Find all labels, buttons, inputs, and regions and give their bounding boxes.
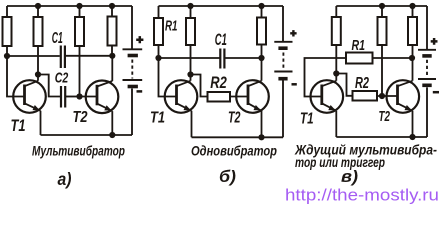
node dot T1a collector: [35, 71, 41, 77]
svg-text:R1: R1: [165, 19, 178, 35]
resistor R1c horizontal: [346, 53, 373, 64]
wire T1b base feed: [159, 58, 177, 97]
resistor R2a (T1 collector): [34, 17, 43, 46]
resistor Rc-right (T2 collector): [408, 17, 417, 45]
wire R2a top lead: [37, 6, 39, 17]
wire top rail b: [159, 5, 284, 7]
node dot T2b emitter/rail: [258, 134, 264, 140]
wire R2vert-b bottom lead crossing C1 line: [190, 45, 192, 75]
battery GB-a plus sign: [136, 36, 143, 43]
node dot rail R3b: [258, 3, 264, 9]
node dot rail R2a: [35, 3, 41, 9]
resistor Rc-mid (T2 base): [378, 17, 387, 45]
svg-text:T1: T1: [300, 111, 314, 128]
battery GB-b plates: [274, 41, 292, 43]
capacitor C1 plates: [60, 46, 62, 69]
resistor R4a (T2 collector): [108, 17, 117, 46]
node dot R1b/C1b: [155, 55, 161, 61]
wire T2a base feed: [80, 96, 98, 98]
transistor T2c: [387, 58, 420, 137]
wire R2b right lead to T2b base: [230, 96, 248, 98]
node dot T1c collector: [333, 70, 339, 76]
wire Rc-right bottom lead: [412, 45, 414, 58]
wire C1b left lead: [159, 57, 221, 59]
resistor R1b: [154, 18, 163, 45]
wire Rc-mid top lead: [381, 6, 383, 17]
svg-text:T2: T2: [228, 110, 241, 127]
svg-text:а): а): [58, 169, 72, 189]
svg-text:C1: C1: [52, 30, 63, 47]
node dot rail R2vert-b: [187, 3, 193, 9]
transistor T1c: [311, 74, 344, 138]
wire Rc-mid bottom lead crossing R1c line: [381, 45, 383, 96]
wire C1b right lead: [224, 57, 261, 59]
wire R2vert-b top lead: [190, 6, 192, 18]
wire C1a left lead: [7, 55, 60, 57]
wire R1b bottom lead: [158, 45, 160, 58]
svg-text:в): в): [341, 167, 358, 186]
wire T1a base feed: [7, 56, 24, 97]
wire R2a bottom lead: [37, 46, 39, 75]
svg-text:Мультивибратор: Мультивибратор: [32, 142, 125, 158]
battery GB-c top lead: [426, 6, 428, 50]
node dot C1b/R3b: [258, 55, 264, 61]
wire R2c right lead to T2c base: [377, 95, 398, 97]
svg-text:C1: C1: [215, 31, 227, 49]
wire R4a top lead: [111, 6, 113, 17]
wire C2a left jog: [38, 75, 60, 97]
node dot rail Rc-mid: [379, 3, 385, 9]
wire R1a bottom lead: [6, 46, 8, 56]
svg-text:T1: T1: [11, 117, 26, 135]
transistor T1b: [165, 75, 198, 138]
resistor Rc-left (T1 collector): [332, 17, 341, 45]
battery GB-b top lead: [282, 6, 284, 42]
svg-text:T2: T2: [379, 108, 391, 125]
svg-text:R2: R2: [210, 73, 227, 92]
transistor T1a: [13, 75, 46, 136]
wire C1a right lead: [65, 55, 112, 57]
wire R1c left feed to T1c base: [305, 58, 347, 97]
battery GB-c plus sign: [431, 38, 438, 45]
battery GB-a top lead: [131, 6, 133, 49]
node dot T2c base: [379, 93, 385, 99]
resistor R2c horizontal: [353, 91, 378, 101]
resistor R2b horizontal: [208, 92, 231, 102]
capacitor C2 plates: [60, 86, 62, 108]
node dot rail Rc-right: [409, 3, 415, 9]
battery GB-b minus sign: [292, 83, 297, 86]
node dot T2c emitter/rail: [409, 134, 415, 140]
resistor R3a (T2 base): [75, 17, 84, 46]
node dot C1a/R4a/T2a collector: [109, 53, 115, 59]
wire R3b bottom lead: [261, 45, 263, 59]
node dot T1b collector: [187, 71, 193, 77]
node dot R1c/T2c collector: [409, 55, 415, 61]
wire R4a bottom lead: [111, 46, 113, 56]
wire R3a bottom lead: [79, 46, 81, 97]
wire R1c right lead: [373, 57, 413, 59]
svg-text:R2: R2: [355, 75, 369, 92]
wire R1b top lead: [158, 6, 160, 18]
wire R3a top lead: [79, 6, 81, 17]
svg-text:T1: T1: [150, 110, 165, 127]
svg-text:C2: C2: [55, 69, 69, 86]
wire top rail c: [336, 5, 427, 7]
transistor T2a: [86, 56, 119, 135]
wire R3c-left top lead: [335, 6, 337, 17]
svg-text:http://the-mostly.ru: http://the-mostly.ru: [285, 186, 439, 205]
battery GB-a minus sign: [137, 90, 143, 93]
svg-text:T2: T2: [73, 109, 88, 126]
battery GB-c plates: [418, 49, 436, 51]
battery GB-c bottom lead: [426, 87, 428, 137]
svg-text:Одновибратор: Одновибратор: [191, 142, 277, 158]
capacitor C1b plates: [219, 49, 221, 69]
wire left drop to R1a: [6, 6, 8, 17]
battery GB-a plates: [123, 48, 143, 50]
node dot R1a/C1 junction: [4, 53, 10, 59]
battery GB-b bottom lead: [282, 81, 284, 138]
node dot T2a emitter/rail: [109, 132, 115, 138]
wire R3b top lead: [261, 6, 263, 18]
resistor R1a (T1 base): [3, 17, 12, 46]
transistor T2b: [236, 58, 269, 137]
wire jog T1b collector to R2b: [191, 75, 208, 97]
resistor R2vert-b (T1 collector): [186, 18, 195, 45]
node dot rail R3a: [76, 3, 82, 9]
node dot rail R4a: [109, 3, 115, 9]
wire bottom rail c: [336, 136, 427, 138]
wire Rc-left bottom lead: [335, 45, 337, 74]
wire Rc-right top lead: [412, 6, 414, 17]
battery GB-b plus sign: [290, 30, 296, 36]
wire jog T1c collector to R2c: [336, 74, 352, 96]
wire bottom rail b: [192, 136, 284, 138]
wire bottom rail a: [41, 134, 133, 136]
wire top rail a: [7, 5, 132, 7]
svg-text:R1: R1: [352, 38, 366, 54]
node dot T2a base: [76, 93, 82, 99]
resistor R3b (T2 collector): [257, 18, 266, 45]
battery GB-c minus sign: [433, 91, 439, 94]
wire C2a right lead: [65, 96, 79, 98]
battery GB-a bottom lead: [131, 89, 133, 136]
svg-text:б): б): [219, 167, 236, 186]
